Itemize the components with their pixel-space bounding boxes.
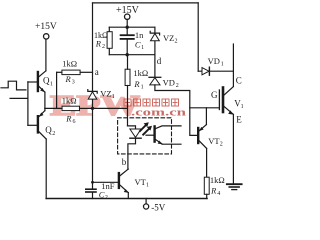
wire left rail lower [92,99,94,188]
capacitor C1 [126,19,128,34]
svg-text:-5V: -5V [151,203,165,212]
svg-text:VZ: VZ [100,88,111,98]
wire VD2 to VT2 base [155,85,198,135]
svg-text:1kΩ: 1kΩ [62,59,77,69]
svg-text:VD: VD [208,56,220,66]
svg-text:b: b [122,157,127,167]
capacitor C2 [86,188,96,190]
svg-text:6: 6 [73,119,76,125]
node d wire [154,55,156,78]
svg-text:Q: Q [43,76,50,86]
transistor Q1 [37,72,39,91]
svg-text:Q: Q [45,125,52,135]
svg-text:+15V: +15V [35,22,57,32]
svg-text:R: R [133,79,140,89]
svg-text:1: 1 [112,94,115,100]
transistor VT2 [197,128,199,143]
wire R3 left drop [56,72,58,108]
svg-text:C: C [99,190,105,200]
svg-text:1kΩ: 1kΩ [210,175,225,185]
input pulse waveform [1,81,26,90]
wire top-right drop [197,3,199,71]
svg-text:1kΩ: 1kΩ [133,68,148,78]
watermark EPW big letters [50,90,140,122]
diode VD2 [149,76,161,78]
IGBT V1 [232,44,234,86]
svg-text:1: 1 [241,104,243,110]
watermark chinese row [124,99,179,106]
svg-text:2: 2 [175,39,178,45]
svg-text:2: 2 [176,83,179,89]
svg-text:VT: VT [135,177,147,187]
svg-text:1: 1 [50,81,53,87]
bottom -5V rail [46,198,207,200]
wire VD1 branch [198,70,233,72]
svg-text:R: R [65,113,72,123]
wire Q2 collector drop [45,139,47,199]
svg-text:3: 3 [72,79,75,85]
svg-text:1: 1 [221,62,224,68]
svg-text:d: d [157,56,162,66]
svg-text:+15V: +15V [116,5,140,16]
wire left rail upper [92,3,94,91]
+15V terminal (left) [44,34,49,39]
resistor R3 [62,70,80,75]
svg-text:VD: VD [163,77,175,87]
svg-text:1n: 1n [135,30,144,40]
component box (R2 C1 VZ2) [109,26,155,28]
svg-text:E: E [236,114,242,124]
junction dot VT1 base/rail [91,181,94,184]
zener VZ2 [150,31,159,35]
svg-text:.com.cn: .com.cn [131,107,187,118]
svg-text:2: 2 [102,44,105,50]
svg-text:R: R [95,38,102,48]
opto phototransistor [153,126,155,141]
svg-text:G: G [211,90,218,100]
wire common base vertical [27,82,29,126]
svg-text:1: 1 [141,45,144,51]
transistor VT1 [118,173,120,188]
wire Q1 emitter drop [44,92,46,108]
svg-text:4: 4 [217,191,220,197]
junction dots on box [126,26,129,29]
optocoupler LED [128,126,136,129]
svg-text:1: 1 [141,85,144,91]
LED light arrows [140,125,146,131]
zener VZ1 [88,90,97,94]
junction dot rail/R6 [91,107,94,110]
svg-text:R: R [65,74,72,84]
svg-text:2: 2 [220,141,223,147]
wire rail to R1/LED branch [93,107,128,109]
svg-text:1kΩ: 1kΩ [62,95,77,105]
optocoupler dashed box [118,118,172,154]
resistor R2 [107,32,112,49]
wire VT2 collector to R4 [206,148,208,177]
svg-text:C: C [236,75,242,85]
input stub wire [10,97,28,99]
resistor R1 [125,69,130,85]
wire top rail [93,2,199,4]
svg-text:2: 2 [52,131,55,137]
resistor R6 [62,106,80,110]
svg-text:VZ: VZ [163,33,174,43]
diode VD1 [202,68,209,75]
svg-text:2: 2 [105,195,108,201]
ground [227,183,242,185]
-5V terminal [145,199,147,205]
svg-text:R: R [210,185,217,195]
svg-text:1: 1 [146,182,149,188]
svg-text:VT: VT [208,136,220,146]
transistor Q2 [37,116,39,132]
resistor R4 [204,177,209,194]
+15V terminal (middle) [125,14,130,19]
svg-text:a: a [95,67,99,77]
svg-text:C: C [135,40,141,50]
